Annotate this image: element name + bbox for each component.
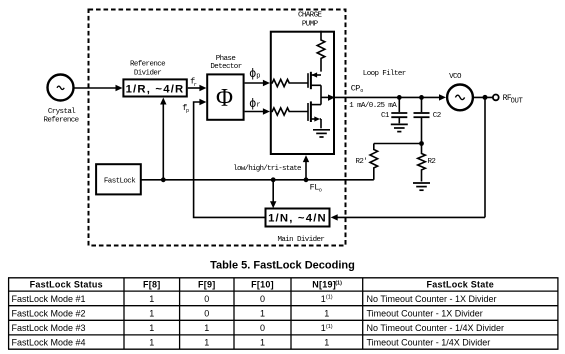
node FLo label (310, 183, 322, 194)
svg-text:o: o (360, 88, 363, 94)
wire FLo to charge pump (303, 155, 309, 180)
wire PMOS drain to NMOS drain (320, 85, 322, 104)
wire R2p to R2 node (374, 143, 422, 145)
svg-text:Crystal: Crystal (48, 108, 76, 116)
charge pump gate resistor upper (270, 79, 308, 86)
svg-text:1: 1 (260, 338, 265, 348)
main divider N (266, 209, 330, 245)
svg-text:0: 0 (260, 294, 265, 304)
crystal reference oscillator (43, 75, 78, 125)
svg-text:1: 1 (324, 308, 329, 318)
svg-text:CHARGE: CHARGE (298, 12, 323, 20)
RF output terminal (493, 94, 523, 105)
table row 4 (12, 338, 491, 348)
phase detector U1 (207, 55, 243, 120)
svg-text:Timeout Counter - 1/4X Divider: Timeout Counter - 1/4X Divider (367, 338, 491, 348)
svg-text:Φ: Φ (216, 84, 233, 112)
node junction FLo (304, 177, 309, 182)
loop filter main wire (335, 96, 441, 98)
table row 1 (12, 294, 497, 304)
table grid (8, 278, 559, 349)
svg-text:0: 0 (204, 308, 209, 318)
svg-text:1: 1 (149, 323, 154, 333)
svg-text:C1: C1 (381, 112, 390, 120)
svg-text:low/high/tri-state: low/high/tri-state (233, 165, 301, 173)
FastLock control block (96, 164, 141, 194)
dashed PLL chip boundary box (89, 10, 346, 246)
table row 2 (12, 308, 483, 318)
svg-text:1: 1 (260, 308, 265, 318)
svg-text:OUT: OUT (511, 97, 523, 105)
svg-text:p: p (256, 73, 260, 81)
wire phase detector phir to charge pump (245, 96, 270, 115)
resistor R2 (418, 144, 436, 182)
svg-text:F[9]: F[9] (198, 280, 216, 290)
NMOS transistor Q2 (308, 101, 321, 122)
svg-text:1: 1 (149, 308, 154, 318)
charge pump pull-up resistor (317, 31, 325, 72)
node CPo label (351, 84, 364, 94)
svg-text:1/N, ~4/N: 1/N, ~4/N (268, 213, 327, 225)
svg-text:FastLock Mode #4: FastLock Mode #4 (12, 338, 86, 348)
svg-text:(1): (1) (335, 280, 342, 286)
table header row (30, 280, 494, 290)
svg-text:1: 1 (204, 338, 209, 348)
svg-text:FastLock Mode #3: FastLock Mode #3 (12, 323, 86, 333)
svg-text:FastLock Status: FastLock Status (30, 280, 103, 290)
svg-text:ϕ: ϕ (249, 96, 256, 110)
svg-text:Loop Filter: Loop Filter (363, 70, 406, 78)
svg-text:Main Divider: Main Divider (277, 236, 324, 244)
svg-text:C2: C2 (433, 112, 441, 120)
svg-text:FastLock Mode #1: FastLock Mode #1 (12, 294, 86, 304)
svg-text:(1): (1) (326, 324, 333, 330)
wire phase detector phiP to charge pump (245, 66, 270, 86)
svg-text:Table 5. FastLock Decoding: Table 5. FastLock Decoding (210, 259, 355, 271)
svg-text:0: 0 (260, 323, 265, 333)
svg-text:F[8]: F[8] (143, 280, 161, 290)
VCO oscillator (447, 73, 473, 111)
svg-text:1: 1 (149, 294, 154, 304)
charge pump gate resistor lower (270, 108, 308, 115)
svg-text:No Timeout Counter - 1/4X Divi: No Timeout Counter - 1/4X Divider (367, 323, 505, 333)
ground C1 (391, 124, 408, 131)
wire NMOS source to ground (320, 119, 322, 128)
ground charge pump (313, 130, 330, 137)
wire crystal to reference divider (74, 85, 122, 91)
arrow into VCO (439, 94, 446, 100)
feedback wire RF node down (484, 97, 486, 217)
svg-text:r: r (256, 102, 260, 110)
svg-text:Reference: Reference (130, 61, 165, 69)
svg-text:FL: FL (310, 183, 320, 193)
svg-text:Timeout Counter - 1X Divider: Timeout Counter - 1X Divider (367, 308, 483, 318)
wire main divider to phase detector fp input (194, 99, 266, 218)
svg-text:No Timeout Counter - 1X Divide: No Timeout Counter - 1X Divider (367, 294, 497, 304)
node junction to reference divider (161, 177, 166, 182)
svg-text:Divider: Divider (134, 70, 161, 78)
svg-text:Reference: Reference (43, 117, 78, 125)
feedback wire into main divider (331, 214, 485, 220)
wire FastLock to reference divider (160, 98, 166, 180)
reference divider R (123, 61, 186, 97)
PMOS transistor Q1 (308, 72, 321, 89)
svg-text:FastLock State: FastLock State (427, 280, 495, 290)
svg-text:1/R, ~4/R: 1/R, ~4/R (126, 83, 185, 95)
svg-text:r: r (194, 82, 197, 88)
svg-text:CP: CP (351, 84, 361, 94)
svg-text:R2': R2' (356, 158, 368, 166)
svg-text:1: 1 (149, 338, 154, 348)
charge pump box (271, 12, 334, 154)
svg-text:FastLock Mode #2: FastLock Mode #2 (12, 308, 86, 318)
node fp label (182, 103, 189, 114)
svg-text:R2: R2 (428, 158, 436, 166)
svg-text:(1): (1) (326, 295, 333, 301)
wire reference divider to phase detector (188, 85, 207, 91)
capacitor C2 (414, 97, 441, 143)
resistor R2p (356, 144, 378, 180)
svg-text:o: o (319, 188, 322, 194)
wire VCO to RFout (474, 96, 493, 98)
svg-text:VCO: VCO (449, 73, 462, 81)
svg-text:0: 0 (204, 294, 209, 304)
svg-text:1: 1 (324, 338, 329, 348)
wire FastLock to main divider (270, 180, 276, 208)
svg-text:1 mA/0.25 mA: 1 mA/0.25 mA (349, 102, 397, 110)
svg-text:1: 1 (204, 323, 209, 333)
charge pump output arrow CPo (321, 95, 335, 101)
svg-text:Detector: Detector (210, 63, 241, 71)
svg-text:PUMP: PUMP (302, 21, 319, 29)
svg-text:N[19]: N[19] (312, 280, 336, 290)
node junction below C2 (419, 141, 424, 146)
node junction C2 (419, 95, 424, 100)
capacitor C1 (381, 97, 407, 123)
svg-text:F[10]: F[10] (251, 280, 274, 290)
svg-text:FastLock: FastLock (104, 177, 136, 185)
ground R2 (413, 183, 430, 190)
node junction RF (483, 95, 488, 100)
FastLock control bus wire (141, 179, 374, 181)
node fr label (190, 77, 197, 88)
node junction C1 (397, 95, 402, 100)
svg-text:p: p (186, 108, 189, 114)
node junction to main divider (271, 177, 276, 182)
table row 3 (12, 323, 505, 333)
